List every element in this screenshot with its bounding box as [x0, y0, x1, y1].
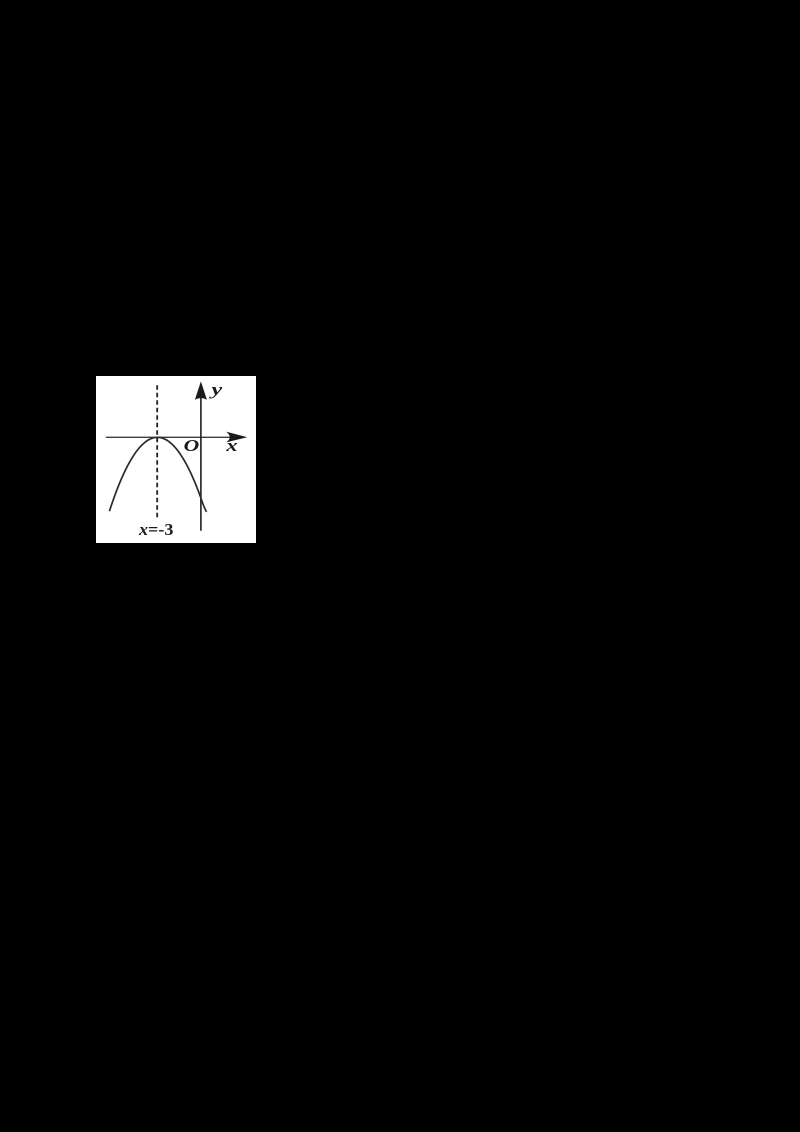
x-axis arrowhead [226, 431, 247, 442]
parabola [109, 437, 206, 512]
dashed axis of symmetry x=-3 [156, 385, 158, 518]
svg-text:y: y [208, 380, 223, 399]
svg-text:x: x [225, 436, 238, 455]
white figure panel [96, 376, 256, 544]
svg-text:O: O [183, 436, 199, 455]
y-axis [199, 386, 201, 531]
x-axis [105, 436, 241, 438]
svg-text:x=-3: x=-3 [137, 520, 173, 539]
y-axis arrowhead [194, 381, 206, 399]
